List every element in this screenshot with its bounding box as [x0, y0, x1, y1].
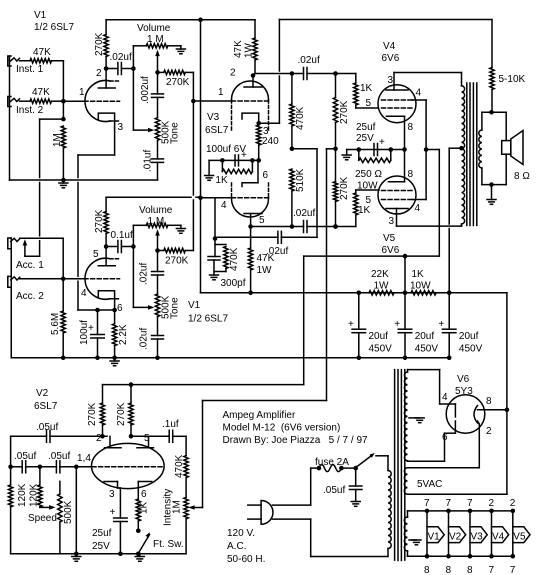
wire V6 pin 2: [478, 421, 493, 437]
svg-text:+: +: [379, 137, 385, 148]
triode V1a cathode: [98, 113, 123, 133]
svg-text:2: 2: [96, 433, 102, 444]
potentiometer Volume 1M (Acc): [139, 205, 181, 228]
svg-text:2.2K: 2.2K: [118, 324, 129, 345]
triode V1b cathode: [98, 291, 123, 314]
svg-text:47K: 47K: [233, 40, 244, 58]
svg-text:7: 7: [424, 498, 430, 509]
wire V3b plate row: [251, 226, 304, 228]
capacitor 25uf 25V (V2 cathode): [92, 507, 127, 554]
node 25uf gnd: [118, 552, 123, 557]
svg-text:1: 1: [218, 87, 224, 98]
potentiometer Intensity 1M: [163, 489, 189, 526]
svg-text:+: +: [348, 319, 354, 330]
capacitor .02uf (to V3b grid): [215, 231, 310, 257]
node cathode 2.2K: [112, 308, 117, 313]
svg-text:120 V.: 120 V.: [227, 528, 255, 539]
svg-text:Model M-12 (6V6 version): Model M-12 (6V6 version): [223, 423, 341, 434]
svg-text:Speed: Speed: [28, 513, 57, 524]
resistor 47K (Inst.2): [20, 87, 64, 103]
wire ground bus (input): [10, 179, 158, 181]
svg-text:+: +: [88, 323, 94, 334]
svg-text:50-60 H.: 50-60 H.: [227, 554, 265, 565]
node V4 grid line: [333, 71, 338, 76]
node divider top: [290, 71, 295, 76]
resistor 120K (osc 2): [29, 467, 43, 507]
svg-text:1,4: 1,4: [77, 453, 91, 464]
svg-text:47K: 47K: [32, 87, 50, 98]
node tremolo tap: [333, 147, 338, 152]
node osc node1: [8, 465, 13, 470]
svg-text:25uf: 25uf: [356, 122, 376, 133]
wire speaker loop top: [482, 112, 506, 184]
ground (V2 bus left): [72, 554, 81, 562]
wire line B (B+ riser): [200, 20, 202, 293]
arrow intensity wiper: [188, 505, 194, 510]
svg-text:.05uf: .05uf: [36, 422, 58, 433]
transformer PT HV secondary: [404, 372, 407, 461]
svg-text:1M: 1M: [172, 500, 183, 514]
triode V1a envelope: [85, 81, 120, 122]
svg-text:5VAC: 5VAC: [417, 479, 442, 490]
tube V2 plate b: [137, 433, 154, 448]
label V1 1/2 6SL7 (top): [34, 10, 74, 33]
svg-text:7: 7: [510, 565, 516, 575]
svg-text:470K: 470K: [174, 454, 185, 478]
svg-text:240: 240: [262, 136, 279, 147]
svg-text:+: +: [438, 319, 444, 330]
svg-text:250 Ω: 250 Ω: [355, 169, 382, 180]
node tone2 gnd: [155, 356, 160, 361]
resistor 270K (V5 grid leak): [333, 149, 350, 227]
ground (line filter): [351, 502, 360, 507]
triode V3a grid: [218, 87, 270, 101]
label Inst. 1: [16, 64, 44, 75]
node bias left: [357, 147, 362, 152]
capacitor 20uf 450V (third): [438, 293, 482, 358]
tube V6 filament: [474, 406, 478, 424]
svg-text:V3: V3: [207, 112, 220, 123]
svg-text:V3: V3: [471, 532, 484, 543]
svg-text:1/2 6SL7: 1/2 6SL7: [188, 314, 228, 325]
wire feedback to cathode: [259, 122, 280, 124]
tube V2 cathode a: [104, 482, 120, 519]
speaker: [502, 131, 523, 165]
heater tag V3: [467, 498, 487, 575]
node cathode row right: [250, 158, 255, 163]
heater tag V1: [424, 498, 444, 575]
svg-text:25V: 25V: [92, 541, 110, 552]
svg-text:20uf: 20uf: [459, 331, 479, 342]
ground (cathode bias): [342, 150, 351, 160]
node V6 B+ out: [505, 408, 510, 413]
wire speed wiper: [40, 506, 52, 509]
svg-text:450V: 450V: [415, 344, 439, 355]
node speaker cold: [489, 182, 494, 187]
wire V4 grid feed: [336, 73, 356, 75]
node V3a plate: [251, 73, 256, 78]
node volume1 wiper: [155, 70, 160, 75]
svg-text:6: 6: [141, 489, 147, 500]
node V1b plate junction: [104, 244, 109, 249]
capacitor .02uf (to V5 grid): [293, 208, 315, 233]
wire fuse to switch: [341, 467, 355, 469]
capacitor .05uf (osc 1): [11, 422, 107, 442]
node cathode row left: [220, 158, 225, 163]
svg-text:+: +: [110, 507, 116, 518]
fuse 2A: [315, 457, 349, 472]
ground (V2 bus right): [135, 554, 144, 562]
node osc node2: [38, 465, 43, 470]
tube V4 envelope: [378, 85, 416, 123]
svg-text:1K: 1K: [360, 83, 373, 94]
node coupling out: [131, 66, 136, 71]
AC plug: [248, 501, 273, 525]
svg-text:V5: V5: [383, 233, 396, 244]
wire intensity to gnd bus: [185, 519, 187, 554]
wire V2 B+ feed: [103, 256, 406, 403]
svg-text:500K: 500K: [63, 500, 74, 524]
capacitor .1uf (trem out): [149, 419, 187, 442]
node V2a plate: [100, 434, 105, 439]
resistor 470K (divider): [290, 74, 306, 149]
svg-text:300pf: 300pf: [221, 278, 246, 289]
jack Inst.1: [8, 56, 20, 66]
capacitor .02uf (tone2 top): [139, 251, 164, 295]
svg-text:25V: 25V: [356, 133, 374, 144]
svg-text:6SL7: 6SL7: [205, 125, 229, 136]
wire V4 plate to OT: [394, 73, 462, 86]
tube V4 screen grid: [382, 99, 413, 101]
triode V1a grid: [79, 87, 120, 101]
svg-text:270K: 270K: [166, 77, 190, 88]
svg-text:6V6: 6V6: [382, 53, 400, 64]
svg-text:.05uf: .05uf: [14, 451, 36, 462]
resistor 5.6M (grid leak V1b): [50, 279, 65, 358]
capacitor .05uf (osc 3): [40, 451, 76, 473]
resistor 22K 1W (PSU): [359, 269, 405, 295]
node divider mid: [290, 147, 295, 152]
svg-text:470K: 470K: [229, 247, 240, 271]
svg-text:270K: 270K: [165, 256, 189, 267]
ground (speaker): [487, 185, 496, 205]
wire V2 ground bus: [11, 553, 187, 555]
wire V5 screen tap: [413, 150, 427, 215]
node bias right: [389, 147, 394, 152]
tube V5 plate: [386, 209, 408, 228]
svg-text:4: 4: [415, 203, 421, 214]
svg-text:6: 6: [442, 432, 448, 443]
node volume2 wiper: [155, 248, 160, 253]
wire V3a plate row: [255, 73, 304, 75]
tube V5 envelope: [378, 176, 416, 214]
title line 3: [223, 435, 369, 446]
svg-text:5-10K: 5-10K: [499, 74, 526, 85]
tube V2 cathode b: [138, 482, 152, 501]
switch Ft. Sw.: [139, 532, 184, 552]
transformer OT secondary: [479, 130, 482, 168]
node line B tap: [198, 196, 203, 201]
resistor 5-10K (feedback): [490, 20, 526, 113]
svg-text:.02uf: .02uf: [298, 55, 320, 66]
resistor 270K (V1a plate load): [94, 20, 108, 69]
tube V2 envelope: [92, 443, 165, 488]
wire 5VAC bottom to B+: [408, 410, 507, 494]
svg-text:+: +: [394, 319, 400, 330]
capacitor .02uf (V1a coupling): [106, 52, 133, 75]
resistor 2.2K (V1b cathode): [112, 310, 129, 358]
arrow tone2 wiper: [148, 305, 154, 310]
resistor 270K (V2a plate): [87, 402, 105, 436]
svg-text:2: 2: [486, 426, 492, 437]
title line 1: [223, 410, 296, 421]
wire Acc.1 tip: [20, 238, 64, 278]
node V2 plate rail: [129, 382, 134, 387]
resistor 270K (Inst mix): [158, 70, 194, 88]
svg-text:V2: V2: [36, 388, 49, 399]
node V3b plate junction: [248, 224, 253, 229]
label V4 6V6: [382, 41, 400, 64]
svg-text:6V6: 6V6: [382, 245, 400, 256]
triode V3b plate: [244, 214, 265, 227]
capacitor 25uf 25V (bias bypass): [356, 122, 385, 156]
triode V3b cathode: [242, 160, 269, 186]
transformer OT primary: [462, 86, 465, 224]
triode V1b plate: [93, 247, 115, 266]
node V2b plate: [129, 434, 134, 439]
tube V6 plate 4: [442, 392, 455, 417]
wire plug hot: [273, 468, 319, 505]
tube V5 control grid: [366, 191, 413, 207]
node 5.6M gnd: [61, 356, 66, 361]
resistor 270K (V1b plate load): [94, 197, 108, 246]
svg-text:25uf: 25uf: [92, 528, 112, 539]
node B+ preamp: [357, 291, 362, 296]
switch AC power: [357, 453, 375, 467]
wire Inst.1 to grid junction: [62, 61, 64, 101]
svg-text:8: 8: [424, 565, 430, 575]
svg-text:8: 8: [486, 396, 492, 407]
resistor 470K (intensity series): [174, 436, 188, 497]
node mix to V3a grid: [191, 99, 196, 104]
node gnd 100uf: [95, 356, 100, 361]
svg-text:1 M: 1 M: [148, 216, 165, 227]
svg-text:20uf: 20uf: [415, 331, 435, 342]
svg-text:3: 3: [388, 75, 394, 86]
svg-text:270K: 270K: [94, 209, 105, 233]
svg-text:470K: 470K: [295, 106, 306, 130]
potentiometer 500K Tone (Acc): [155, 294, 180, 319]
ground (volume Acc): [176, 225, 185, 233]
ground (input bus): [59, 180, 68, 188]
svg-text:1 M: 1 M: [147, 34, 164, 45]
wire heater rail top: [408, 510, 513, 512]
triode V1b grid: [81, 279, 120, 299]
resistor 120K (osc 1): [8, 483, 28, 553]
svg-text:5: 5: [144, 433, 150, 444]
wire tap to Acc.1 switch line: [25, 119, 64, 256]
heater tag V2: [446, 498, 466, 575]
wire heater rail bottom: [408, 555, 513, 557]
label 8 ohms: [514, 171, 530, 182]
transformer PT core: [395, 370, 405, 561]
node gnd cap3: [447, 356, 452, 361]
node osc node3: [74, 465, 79, 470]
svg-text:.1uf: .1uf: [162, 419, 179, 430]
node gnd cap1: [357, 356, 362, 361]
capacitor .01uf (tone1): [143, 140, 164, 180]
triode V3b envelope: [232, 183, 269, 217]
wire B+ rail (preamp top): [106, 19, 255, 21]
resistor 250ohm 10W (bias): [355, 150, 391, 192]
node jack-switch tap: [61, 101, 66, 121]
svg-text:6: 6: [263, 170, 269, 181]
svg-text:Volume: Volume: [139, 205, 173, 216]
wire feedback rail: [279, 20, 492, 124]
svg-text:V4: V4: [492, 532, 505, 543]
svg-text:1K: 1K: [358, 205, 371, 216]
node speed gnd: [136, 552, 141, 557]
tube V4 plate: [386, 73, 408, 91]
triode V1a plate: [96, 68, 115, 88]
svg-text:V1: V1: [428, 532, 441, 543]
capacitor .002uf (tone1): [140, 72, 164, 117]
svg-text:1K: 1K: [412, 269, 425, 280]
wire V3b grid lead: [201, 197, 232, 199]
resistor 1K (V4 grid stopper): [354, 74, 378, 110]
wire main ground bus: [11, 357, 449, 359]
label V3 6SL7: [205, 112, 229, 136]
node gnd 2.2K: [112, 356, 117, 361]
svg-text:Ampeg Amplifier: Ampeg Amplifier: [223, 410, 296, 421]
tube V4 control grid: [382, 107, 413, 109]
label V6 5Y3: [455, 374, 473, 397]
svg-text:Inst. 1: Inst. 1: [16, 64, 44, 75]
wire tremolo line: [192, 149, 336, 508]
svg-text:1W: 1W: [244, 42, 255, 58]
svg-text:8: 8: [408, 122, 414, 133]
wire jack sleeve line: [9, 56, 11, 180]
label Acc. 1: [16, 260, 44, 271]
capacitor 0.1uf (V1b coupling): [106, 230, 133, 253]
wire screen to bus: [404, 256, 406, 293]
svg-text:2: 2: [230, 68, 236, 79]
svg-text:10W: 10W: [357, 181, 378, 192]
svg-text:1W: 1W: [257, 265, 273, 276]
capacitor 100uf 6V (cathode bypass): [206, 144, 247, 166]
svg-text:450V: 450V: [369, 344, 393, 355]
svg-text:V6: V6: [457, 374, 470, 385]
svg-text:7: 7: [467, 498, 473, 509]
wire mix line A: [192, 72, 194, 250]
svg-text:4: 4: [81, 288, 87, 299]
wire OT CT to B+: [449, 148, 461, 293]
ground (V3a cathode): [205, 160, 228, 186]
resistor 1M (grid leak V1a): [52, 126, 66, 180]
ground (heater CT): [409, 540, 421, 545]
svg-text:270K: 270K: [87, 402, 98, 426]
node OT center tap: [459, 146, 464, 151]
node return gnd: [74, 552, 79, 557]
svg-text:10W: 10W: [410, 281, 431, 292]
node cathode tie: [402, 147, 407, 152]
capacitor .05uf (line filter): [323, 468, 362, 501]
wire speaker loop bottom: [482, 168, 506, 185]
wire V2b plate row: [131, 435, 149, 437]
node speaker hot: [489, 110, 494, 115]
svg-text:2: 2: [489, 498, 495, 509]
svg-text:6SL7: 6SL7: [34, 401, 58, 412]
tube V5 screen grid: [382, 199, 413, 201]
svg-text:Drawn By: Joe Piazza 5 / 7 /: Drawn By: Joe Piazza 5 / 7 / 97: [223, 435, 369, 446]
heater tag V4: [489, 498, 509, 575]
resistor 47K 1W (V3b plate load): [248, 227, 274, 293]
resistor 270K (Acc mix): [158, 248, 194, 266]
svg-text:3: 3: [389, 216, 395, 227]
svg-text:Tone: Tone: [170, 122, 181, 144]
resistor 470K (V3b grid leak): [215, 245, 240, 272]
svg-text:.02uf: .02uf: [293, 208, 315, 219]
svg-text:.01uf: .01uf: [143, 150, 154, 172]
wire acc coupling to volume/tone: [133, 225, 150, 307]
svg-text:Tone: Tone: [170, 297, 181, 319]
svg-text:120K: 120K: [29, 483, 40, 507]
label V5 6V6: [382, 233, 400, 256]
svg-text:Inst. 2: Inst. 2: [16, 105, 44, 116]
resistor 1K (V2 cathode): [136, 499, 149, 531]
svg-text:.05uf: .05uf: [323, 485, 345, 496]
jack Inst.2: [8, 97, 20, 107]
svg-text:1K: 1K: [139, 501, 150, 514]
capacitor .02uf (to V4 grid): [298, 55, 336, 80]
ground (HV center tap): [409, 418, 424, 423]
svg-text:.02uf: .02uf: [110, 52, 132, 63]
node V1b grid junction: [61, 276, 66, 281]
wire plug neutral: [273, 519, 389, 556]
svg-text:1K: 1K: [215, 175, 228, 186]
wire V5 grid row: [307, 226, 356, 228]
resistor 1K 10W (PSU): [405, 269, 449, 295]
triode V3a cathode: [242, 113, 259, 123]
svg-text:5: 5: [366, 195, 372, 206]
ground (main bus): [110, 358, 119, 366]
arrow volume1 wiper: [155, 50, 160, 73]
svg-text:8: 8: [467, 565, 473, 575]
triode V1b envelope: [85, 258, 120, 299]
node V3b grid junction: [213, 198, 218, 241]
node gnd cap2: [403, 356, 408, 361]
capacitor 20uf 450V (first): [348, 293, 392, 358]
svg-text:.02uf: .02uf: [139, 263, 150, 285]
resistor 270K (V2b plate): [116, 385, 133, 437]
svg-text:V5: V5: [513, 532, 526, 543]
svg-text:+: +: [241, 150, 247, 161]
svg-text:.05uf: .05uf: [48, 451, 70, 462]
arrow tone1 wiper: [148, 128, 154, 133]
node V3a cathode / feedback: [256, 121, 269, 137]
heater tag V5: [510, 498, 530, 575]
capacitor .02uf (tone2 bottom): [139, 317, 164, 358]
svg-text:Ft. Sw.: Ft. Sw.: [153, 539, 184, 550]
label V2 6SL7: [34, 388, 58, 412]
capacitor 100uf (V1b cathode): [79, 310, 104, 358]
node cathode row end: [256, 158, 261, 163]
svg-text:4: 4: [416, 88, 422, 99]
svg-text:1/2 6SL7: 1/2 6SL7: [34, 22, 74, 33]
triode V3b grid: [221, 198, 270, 211]
node V1a plate: [104, 66, 109, 71]
wire coupling to volume/tone: [133, 46, 150, 130]
